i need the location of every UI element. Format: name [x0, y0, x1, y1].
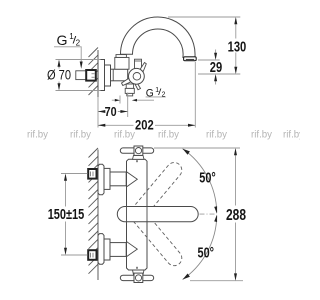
spout arc	[121, 17, 196, 59]
arrow O70 up	[58, 60, 61, 67]
svg-text:rif.by: rif.by	[27, 130, 48, 141]
dashed spout rotated +50	[127, 159, 185, 224]
arrow 130 down	[234, 67, 237, 74]
arrow arc bottom	[183, 274, 190, 280]
dim G1/2 top leader	[54, 47, 81, 62]
supply pipe stub	[76, 71, 86, 80]
arrow G1/2 left-pointing	[132, 99, 137, 102]
column top tick	[136, 160, 138, 162]
dim 130 line	[235, 19, 237, 73]
arrow 29 up	[214, 74, 217, 81]
svg-text:rif.by: rif.by	[251, 130, 272, 141]
svg-text:202: 202	[135, 118, 154, 133]
lower inlet funnel	[127, 242, 138, 257]
arrowheads bottom drawing	[64, 148, 237, 281]
handle hub outer circle	[129, 68, 145, 84]
svg-text:150±15: 150±15	[48, 206, 85, 223]
arrow G1/2 top	[80, 62, 83, 69]
arrow G1/2 right-pointing	[115, 99, 120, 102]
arrow arc top	[183, 149, 190, 155]
svg-text:rif.by: rif.by	[206, 130, 227, 141]
top handle hub	[134, 146, 143, 155]
dim 29 arrows tails	[215, 50, 217, 85]
arrow O70 down	[58, 83, 61, 90]
arrow 202 right	[188, 124, 195, 127]
dim 130 top ext	[168, 16, 240, 18]
bottom handle bar	[120, 275, 153, 280]
spout base flange	[116, 55, 126, 58]
lower spigot cylinder	[110, 243, 126, 257]
swing arc upper	[183, 149, 217, 213]
top handle circle	[135, 148, 141, 154]
aerator	[184, 57, 197, 61]
dim O70 ext lines	[56, 60, 101, 91]
handle blade up-right	[140, 63, 146, 72]
arrow 29 down	[214, 53, 217, 60]
bottom handle hub	[134, 273, 143, 282]
arrow 288 down	[234, 273, 237, 280]
dashed spout rotated -50	[127, 203, 185, 268]
wall face line bottom	[97, 150, 99, 281]
arrow 70 right	[120, 110, 127, 113]
top handle stem	[133, 155, 145, 159]
upper spigot cylinder	[110, 172, 126, 186]
handle blade down-right	[135, 84, 140, 90]
swing arc lower	[183, 216, 217, 280]
svg-text:50°: 50°	[199, 169, 216, 186]
lower union nut	[104, 239, 110, 260]
dim 150 line	[65, 175, 67, 254]
wall hatch bottom	[89, 148, 99, 274]
G1/2 lower underline	[146, 96, 166, 98]
watermarks row	[27, 130, 304, 141]
dim 150 ext lines	[61, 174, 88, 256]
svg-text:rif.by: rif.by	[70, 130, 91, 141]
escutcheon	[98, 60, 105, 91]
dim 70 right ext	[127, 93, 129, 118]
svg-text:rif.by: rif.by	[158, 130, 179, 141]
diverter knob on hub top	[135, 59, 142, 70]
svg-text:50°: 50°	[198, 244, 215, 261]
arrow 130 up	[234, 17, 237, 24]
svg-text:130: 130	[228, 38, 247, 55]
dim 202 line	[98, 124, 195, 126]
svg-text:2: 2	[76, 37, 81, 47]
arrow 150 up	[64, 174, 67, 181]
spout centerline dash-dot	[200, 213, 216, 215]
dim O70 line	[58, 61, 60, 89]
bottom handle stem	[133, 270, 145, 275]
dim 70 line	[98, 111, 128, 113]
svg-text:288: 288	[226, 207, 246, 224]
column bottom tick	[136, 267, 138, 269]
threaded fitting (thick)	[86, 70, 96, 81]
handle hub inner circle	[133, 73, 141, 81]
arrow arc mid lower	[214, 215, 217, 222]
svg-text:rif.by: rif.by	[114, 130, 135, 141]
shower outlet under hub	[126, 84, 133, 88]
upper union nut	[104, 168, 110, 189]
spout base cylinder	[115, 57, 129, 69]
svg-text:rif.by: rif.by	[283, 130, 300, 141]
arrow 202 left	[98, 124, 105, 127]
svg-text:29: 29	[210, 59, 222, 76]
svg-text:Ø 70: Ø 70	[47, 68, 71, 83]
dim 288 bottom ext	[190, 280, 243, 282]
wall face ext down	[97, 97, 99, 128]
dim 288 line	[235, 150, 237, 280]
column edges through capsule	[127, 207, 148, 222]
lower union escutcheon	[98, 234, 104, 265]
lower union pipe (thick)	[88, 250, 96, 260]
bottom handle circle	[135, 275, 141, 281]
top handle bar	[120, 148, 153, 153]
dim 29 ext lines	[198, 60, 240, 74]
wall face line top	[97, 50, 99, 97]
svg-text:2: 2	[162, 90, 166, 99]
dim 288 top ext	[154, 147, 240, 149]
wall hatch top	[89, 48, 99, 96]
dim 202 right ext	[194, 62, 196, 128]
arrow arc mid upper	[214, 206, 217, 213]
escutcheon step	[105, 65, 111, 86]
svg-text:G: G	[146, 87, 154, 99]
upper union pipe (thick)	[88, 169, 96, 179]
handle blade down-left	[122, 78, 132, 86]
svg-text:70: 70	[105, 104, 117, 119]
svg-text:G: G	[57, 32, 68, 48]
upper inlet funnel	[127, 172, 138, 187]
arrow 150 down	[64, 248, 67, 255]
body cylinder	[111, 69, 128, 81]
arrow 70 left	[98, 110, 105, 113]
solid spout capsule	[117, 207, 198, 222]
G1/2 arrow tails	[112, 99, 154, 101]
arrow 288 up	[234, 148, 237, 155]
G1/2 outlet tick	[119, 96, 121, 104]
body column	[127, 159, 148, 270]
arrowheads top drawing	[58, 17, 238, 127]
upper union escutcheon	[98, 164, 104, 195]
